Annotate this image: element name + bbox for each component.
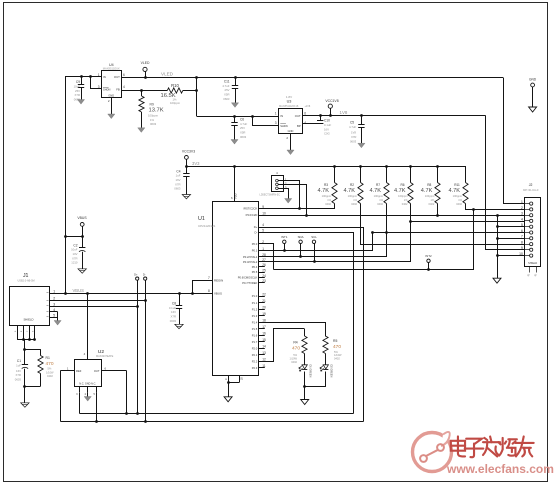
svg-text:0603: 0603 bbox=[240, 135, 247, 139]
resistor R3 bbox=[334, 166, 336, 182]
svg-text:R5: R5 bbox=[333, 339, 337, 343]
svg-text:VCC1V8: VCC1V8 bbox=[325, 99, 338, 103]
regulator U4 bbox=[102, 71, 122, 98]
wire U4 GND stub bbox=[111, 98, 113, 114]
svg-text:P0.2/XTAL1: P0.2/XTAL1 bbox=[243, 255, 258, 259]
svg-text:100ppm: 100ppm bbox=[148, 114, 159, 118]
capacitor C6 bbox=[234, 116, 236, 122]
wire shield to C1 bbox=[24, 340, 26, 349]
wire U2 pin3 to railA bbox=[79, 393, 81, 414]
svg-text:1/10W: 1/10W bbox=[290, 356, 298, 360]
svg-text:7: 7 bbox=[208, 276, 210, 280]
svg-text:19: 19 bbox=[262, 312, 266, 316]
svg-text:www.elecfans.com: www.elecfans.com bbox=[446, 462, 554, 476]
wire J2 ground bus bbox=[497, 215, 499, 278]
svg-text:4: 4 bbox=[521, 217, 523, 221]
svg-text:J2: J2 bbox=[529, 183, 533, 187]
svg-text:1uF: 1uF bbox=[16, 364, 21, 368]
wire C1R1 top bbox=[25, 349, 40, 351]
wire D+ line bbox=[259, 228, 364, 422]
wire U2 pin6 drop bbox=[126, 371, 128, 414]
wire U4-out to U3-in bbox=[197, 116, 279, 118]
wire U1 VDD riser bbox=[234, 166, 236, 202]
resistor R11 bbox=[465, 166, 467, 182]
svg-text:1/10W: 1/10W bbox=[46, 370, 54, 374]
svg-text:4.7K: 4.7K bbox=[394, 188, 406, 194]
svg-text:3: 3 bbox=[98, 85, 100, 89]
svg-text:13: 13 bbox=[262, 351, 266, 355]
svg-text:0402: 0402 bbox=[291, 360, 297, 364]
U1 right pin stubs bbox=[259, 208, 265, 210]
svg-text:4.7K: 4.7K bbox=[449, 188, 461, 194]
svg-text:R4: R4 bbox=[293, 340, 297, 344]
svg-text:0603: 0603 bbox=[15, 377, 22, 381]
svg-text:/RST/C2CK: /RST/C2CK bbox=[243, 207, 257, 211]
wire J1 pin2 line bbox=[50, 300, 146, 302]
svg-text:OUT: OUT bbox=[295, 114, 301, 118]
capacitor C9 bbox=[81, 77, 83, 84]
svg-text:OUT: OUT bbox=[94, 369, 100, 373]
svg-text:P1.0: P1.0 bbox=[252, 294, 258, 298]
svg-text:0402: 0402 bbox=[456, 202, 462, 206]
svg-text:P0.4: P0.4 bbox=[252, 265, 258, 269]
wire P0.0 to INT2 line bbox=[259, 244, 274, 270]
ground C2 bbox=[78, 269, 86, 273]
resonator pins bbox=[276, 179, 279, 182]
svg-text:4: 4 bbox=[123, 85, 125, 89]
svg-text:GND: GND bbox=[529, 78, 537, 82]
ground C6 bbox=[231, 140, 238, 145]
svg-text:3: 3 bbox=[53, 302, 55, 306]
svg-text:13.7K: 13.7K bbox=[149, 107, 164, 113]
svg-text:P0.7/TVREF: P0.7/TVREF bbox=[242, 281, 257, 285]
svg-text:26: 26 bbox=[262, 263, 266, 267]
svg-text:VLED: VLED bbox=[161, 72, 174, 77]
wire U4 IN feed bbox=[65, 76, 101, 78]
resistor R9 bbox=[141, 90, 143, 96]
ground C8 bbox=[175, 324, 183, 328]
svg-text:KRT-I01-04-LD: KRT-I01-04-LD bbox=[523, 190, 539, 192]
svg-text:C10: C10 bbox=[324, 119, 330, 123]
ic U1 box bbox=[213, 202, 259, 376]
svg-text:J1: J1 bbox=[23, 273, 29, 279]
wire D- vertical bbox=[145, 280, 147, 422]
svg-text:R1: R1 bbox=[46, 356, 50, 360]
svg-text:22: 22 bbox=[262, 292, 266, 296]
U2 left pin bbox=[60, 370, 74, 372]
svg-text:0603: 0603 bbox=[223, 97, 230, 101]
U1 bottom GND pins bbox=[228, 375, 230, 382]
svg-text:P2.1: P2.1 bbox=[252, 353, 258, 357]
wire REGIN link bbox=[193, 281, 213, 294]
svg-text:4.7K: 4.7K bbox=[318, 188, 330, 194]
svg-text:P0.1: P0.1 bbox=[252, 249, 258, 253]
svg-text:470: 470 bbox=[292, 345, 300, 351]
svg-text:3V3: 3V3 bbox=[192, 161, 200, 166]
capacitor C10 bbox=[320, 116, 322, 120]
wire rail B (D- bottom) bbox=[61, 421, 364, 423]
svg-text:1/10W: 1/10W bbox=[334, 353, 342, 357]
svg-text:REF: REF bbox=[76, 369, 82, 373]
capacitor C4 bbox=[183, 173, 189, 175]
svg-text:SHIELD: SHIELD bbox=[528, 262, 537, 265]
svg-text:P2.2: P2.2 bbox=[252, 360, 258, 364]
wire C1R1 bottom bbox=[25, 386, 40, 388]
svg-text:4: 4 bbox=[262, 223, 264, 227]
ic U2 box bbox=[75, 360, 102, 387]
svg-text:0402: 0402 bbox=[351, 202, 357, 206]
svg-text:5: 5 bbox=[521, 223, 523, 227]
svg-text:25V: 25V bbox=[75, 89, 80, 93]
svg-text:P0.6/CMOSCLK: P0.6/CMOSCLK bbox=[238, 276, 258, 280]
svg-text:0402: 0402 bbox=[325, 202, 331, 206]
ground C11 bbox=[231, 103, 238, 108]
wire U2 VCC riser bbox=[87, 293, 89, 359]
svg-text:U3: U3 bbox=[287, 100, 292, 104]
svg-text:10: 10 bbox=[262, 211, 266, 215]
svg-text:1: 1 bbox=[275, 112, 277, 116]
svg-text:D2 GREEN: D2 GREEN bbox=[329, 365, 332, 378]
wire D- line bbox=[259, 233, 354, 414]
wire R2 to J2 pin8 bbox=[361, 204, 525, 245]
svg-text:0402: 0402 bbox=[377, 202, 383, 206]
wire resonator pin2 to C2D line bbox=[284, 185, 307, 216]
wire J2 pin6 line bbox=[373, 232, 525, 234]
svg-text:BP: BP bbox=[297, 124, 301, 128]
svg-text:N.C. GND N.C.: N.C. GND N.C. bbox=[79, 382, 96, 385]
svg-text:CP2112F121: CP2112F121 bbox=[198, 224, 216, 228]
J2 pins bbox=[530, 202, 533, 205]
ground J2 bus bbox=[493, 278, 501, 283]
svg-text:1V8: 1V8 bbox=[351, 131, 356, 135]
wire resonator pin1 to RST line bbox=[284, 181, 300, 209]
svg-text:3: 3 bbox=[275, 121, 277, 125]
svg-text:0402: 0402 bbox=[334, 357, 340, 361]
ground C4 bbox=[182, 195, 190, 199]
wire R8 tail bbox=[437, 204, 439, 216]
svg-text:D+: D+ bbox=[134, 272, 138, 276]
U2 bottom pins bbox=[79, 386, 81, 392]
svg-text:100ppm: 100ppm bbox=[170, 101, 181, 105]
svg-text:R9: R9 bbox=[150, 102, 154, 106]
resonator Y4 box bbox=[272, 176, 284, 192]
resistor R1 bbox=[40, 349, 42, 355]
svg-text:VBUS: VBUS bbox=[214, 292, 222, 296]
wire J2 pin5 stub bbox=[505, 226, 525, 228]
svg-text:470: 470 bbox=[46, 361, 54, 367]
svg-text:P1.4: P1.4 bbox=[252, 321, 258, 325]
svg-text:INT2: INT2 bbox=[425, 254, 432, 258]
svg-text:U4: U4 bbox=[109, 63, 114, 67]
svg-text:USB2.0-AB-5M: USB2.0-AB-5M bbox=[18, 280, 35, 283]
svg-text:11: 11 bbox=[262, 364, 266, 368]
regulator U3 bbox=[279, 109, 303, 134]
svg-text:X7R: X7R bbox=[351, 135, 356, 139]
ground C1R1 bbox=[21, 403, 29, 407]
svg-text:IN: IN bbox=[280, 114, 283, 118]
svg-text:SHDN: SHDN bbox=[280, 124, 287, 128]
svg-text:1: 1 bbox=[53, 290, 55, 294]
svg-text:15: 15 bbox=[262, 338, 266, 342]
svg-text:8: 8 bbox=[208, 289, 210, 293]
svg-text:21: 21 bbox=[262, 299, 266, 303]
ground U4 bbox=[108, 114, 115, 119]
svg-text:0603: 0603 bbox=[174, 187, 181, 191]
led D2 bbox=[323, 365, 328, 369]
resistor R7 bbox=[386, 166, 388, 182]
wire U2 pin5 drop bbox=[96, 392, 98, 422]
svg-text:MAX8511EUK: MAX8511EUK bbox=[103, 67, 120, 71]
svg-text:470: 470 bbox=[333, 344, 341, 350]
svg-text:1210: 1210 bbox=[71, 261, 78, 265]
wire D+ vertical bbox=[137, 280, 139, 414]
svg-text:9: 9 bbox=[521, 246, 523, 250]
wire C2D line (U1 pin10 to J2 pin3) bbox=[259, 215, 525, 217]
wire U2 pin1 to railB bbox=[60, 371, 62, 422]
svg-text:C5: C5 bbox=[350, 121, 354, 125]
wire VLED rail bbox=[122, 77, 503, 79]
svg-text:4.7K: 4.7K bbox=[370, 188, 382, 194]
svg-text:VLED: VLED bbox=[141, 61, 150, 65]
wire R11 to J2 pin2 bbox=[466, 204, 525, 210]
svg-text:24: 24 bbox=[262, 274, 266, 278]
svg-text:R2: R2 bbox=[350, 183, 354, 187]
svg-text:1V8: 1V8 bbox=[340, 110, 348, 115]
svg-text:OUT: OUT bbox=[114, 75, 120, 79]
svg-text:R7: R7 bbox=[376, 183, 380, 187]
svg-text:0603: 0603 bbox=[170, 319, 177, 323]
ground LEDs bbox=[301, 400, 309, 405]
svg-text:X7R: X7R bbox=[75, 93, 80, 97]
svg-text:P1.7: P1.7 bbox=[252, 340, 258, 344]
svg-text:6: 6 bbox=[521, 229, 523, 233]
svg-text:2: 2 bbox=[521, 206, 523, 210]
wire 1V8 rail bbox=[303, 115, 486, 117]
svg-text:0402: 0402 bbox=[47, 374, 53, 378]
svg-text:16: 16 bbox=[262, 332, 266, 336]
svg-text:D1 GREEN: D1 GREEN bbox=[308, 365, 311, 378]
svg-text:MAX8511EXK18: MAX8511EXK18 bbox=[279, 104, 299, 108]
svg-text:6: 6 bbox=[123, 73, 125, 77]
svg-text:0603: 0603 bbox=[74, 98, 81, 102]
svg-text:GND: GND bbox=[108, 93, 114, 97]
svg-text:P1.1: P1.1 bbox=[252, 301, 258, 305]
svg-text:P2.3: P2.3 bbox=[252, 366, 258, 370]
svg-text:3: 3 bbox=[521, 212, 523, 216]
capacitor C5 bbox=[361, 116, 363, 125]
wire RST line (U1 pin9 to R3) bbox=[259, 204, 335, 209]
wire rail A (D+ bottom) bbox=[80, 413, 354, 415]
ground C9 bbox=[77, 100, 84, 105]
resistor R4 bbox=[304, 329, 306, 336]
wire J1 shield stubs bbox=[17, 325, 19, 340]
svg-text:LD5ECT3/MRN-5C: LD5ECT3/MRN-5C bbox=[260, 194, 281, 197]
resistor R2 bbox=[360, 166, 362, 182]
wire LED bottoms bbox=[304, 372, 306, 387]
svg-text:25: 25 bbox=[262, 268, 266, 272]
svg-text:4.7K: 4.7K bbox=[344, 188, 356, 194]
svg-text:4.7K: 4.7K bbox=[421, 188, 433, 194]
svg-text:20: 20 bbox=[262, 306, 266, 310]
wire VBUS tie bbox=[65, 236, 82, 238]
wire J1 pin1 VBUS line bbox=[50, 293, 213, 295]
svg-text:17: 17 bbox=[262, 325, 266, 329]
svg-text:5: 5 bbox=[53, 314, 55, 318]
svg-text:10uF: 10uF bbox=[74, 84, 81, 88]
svg-text:100ppm: 100ppm bbox=[398, 194, 407, 198]
svg-text:4.7uF: 4.7uF bbox=[349, 125, 356, 129]
svg-text:P2.0: P2.0 bbox=[252, 347, 258, 351]
watermark logo bbox=[413, 432, 452, 472]
svg-text:P0.5: P0.5 bbox=[252, 270, 258, 274]
connector J1 box bbox=[10, 287, 50, 326]
svg-text:IN: IN bbox=[103, 75, 106, 79]
wire U4 SHDN branch bbox=[91, 77, 102, 89]
ground J1 bbox=[54, 321, 61, 326]
capacitor C11 bbox=[235, 77, 237, 85]
svg-text:MAX3207EATE: MAX3207EATE bbox=[96, 355, 114, 358]
svg-text:14: 14 bbox=[262, 345, 266, 349]
resistor R5 bbox=[323, 336, 328, 354]
svg-text:100ppm: 100ppm bbox=[453, 194, 462, 198]
svg-text:R3: R3 bbox=[324, 183, 328, 187]
wire P0.1 INT1 line bbox=[259, 233, 373, 251]
svg-text:VDD: VDD bbox=[233, 193, 237, 199]
wire VBUS left vertical (x=65) bbox=[65, 77, 67, 293]
watermark chinese text bbox=[451, 437, 465, 457]
svg-text:0603: 0603 bbox=[150, 122, 157, 126]
svg-text:0402: 0402 bbox=[402, 202, 408, 206]
svg-text:100ppm: 100ppm bbox=[348, 194, 357, 198]
svg-text:7: 7 bbox=[521, 235, 523, 239]
ground top-right bbox=[529, 107, 537, 112]
svg-text:8: 8 bbox=[521, 240, 523, 244]
wire VLED drop to J2 pin1 bbox=[504, 78, 525, 204]
svg-text:P0.0: P0.0 bbox=[252, 242, 258, 246]
svg-text:R10: R10 bbox=[171, 83, 179, 88]
wire J1 pin4/5 gnd bbox=[50, 311, 58, 313]
ground U1 bbox=[224, 397, 232, 402]
svg-text:1: 1 bbox=[521, 200, 523, 204]
svg-text:D-: D- bbox=[143, 272, 146, 276]
wire P2.2 to R4 bbox=[259, 329, 305, 362]
svg-text:SCL: SCL bbox=[311, 235, 317, 239]
svg-text:INT1: INT1 bbox=[281, 235, 288, 239]
wire P1.4 to R5 bbox=[259, 323, 326, 337]
ground U2 bbox=[87, 392, 89, 396]
U2 right pin bbox=[102, 370, 127, 372]
svg-text:C0G: C0G bbox=[324, 132, 330, 136]
svg-text:R8: R8 bbox=[427, 183, 431, 187]
svg-text:P1.2: P1.2 bbox=[252, 308, 258, 312]
wire INT2 line bbox=[274, 210, 474, 270]
svg-text:0603: 0603 bbox=[350, 139, 357, 143]
led D1 bbox=[302, 365, 307, 369]
capacitor C2 bbox=[79, 247, 85, 249]
wire U3 GND stub bbox=[290, 133, 292, 150]
capacitor C8 bbox=[179, 293, 181, 306]
svg-text:R11: R11 bbox=[454, 183, 460, 187]
svg-text:P0.3/XTAL2: P0.3/XTAL2 bbox=[243, 260, 258, 264]
wire FB line bbox=[122, 90, 168, 92]
svg-text:23: 23 bbox=[262, 279, 266, 283]
svg-text:GND: GND bbox=[288, 129, 294, 133]
connector J2 box bbox=[525, 198, 541, 267]
wire 1V8 drop to J2 pin9 bbox=[486, 116, 525, 250]
svg-text:100ppm: 100ppm bbox=[425, 194, 434, 198]
wire J1 pin3 line bbox=[50, 306, 138, 308]
ground resonator bbox=[285, 199, 292, 204]
svg-text:1: 1 bbox=[98, 73, 100, 77]
svg-text:+1V8: +1V8 bbox=[305, 105, 311, 108]
svg-text:P1.5: P1.5 bbox=[252, 327, 258, 331]
wire U3 SHDN branch bbox=[253, 117, 279, 126]
svg-text:FB: FB bbox=[116, 87, 120, 91]
svg-text:SHIELD: SHIELD bbox=[23, 317, 33, 321]
ground R9 bbox=[138, 128, 145, 133]
svg-text:C9: C9 bbox=[76, 80, 80, 84]
resistor R6 bbox=[410, 166, 412, 182]
resistor R10 bbox=[167, 88, 183, 93]
resistor R8 bbox=[437, 166, 439, 182]
svg-text:VBUS: VBUS bbox=[73, 288, 85, 293]
wire SDA line (U1 pin28 to R7) bbox=[259, 204, 387, 257]
wire J2 pin7 stub bbox=[505, 238, 525, 240]
wire SCL line (U1 pin27 to R6) bbox=[259, 204, 411, 262]
ground U3 bbox=[287, 150, 294, 155]
svg-text:SHDN: SHDN bbox=[103, 87, 110, 91]
wire 3V3 rail bbox=[187, 167, 466, 183]
svg-text:P3.0/C2D: P3.0/C2D bbox=[246, 213, 258, 217]
svg-text:100ppm: 100ppm bbox=[322, 194, 331, 198]
svg-text:P1.3: P1.3 bbox=[252, 314, 258, 318]
wire R10 to VLED rail bbox=[196, 77, 198, 116]
ground C5 bbox=[358, 143, 365, 148]
svg-text:VCC3V3: VCC3V3 bbox=[182, 150, 195, 154]
capacitor C1 bbox=[24, 349, 26, 364]
svg-text:0402: 0402 bbox=[429, 202, 435, 206]
svg-text:D+: D+ bbox=[254, 225, 258, 229]
svg-text:R6: R6 bbox=[400, 183, 404, 187]
svg-text:5: 5 bbox=[262, 229, 264, 233]
svg-text:100ppm: 100ppm bbox=[374, 194, 383, 198]
wire J2 pin4 line bbox=[411, 221, 525, 223]
wire resonator pin3 to gnd bbox=[284, 189, 289, 199]
svg-text:VBUS: VBUS bbox=[77, 216, 87, 220]
svg-text:SDA: SDA bbox=[298, 235, 304, 239]
svg-text:1.8V: 1.8V bbox=[286, 95, 292, 99]
svg-text:10: 10 bbox=[519, 252, 523, 256]
svg-text:P1.6: P1.6 bbox=[252, 334, 258, 338]
svg-text:U1: U1 bbox=[198, 216, 205, 222]
svg-text:D-: D- bbox=[254, 230, 257, 234]
svg-text:REGIN: REGIN bbox=[214, 279, 223, 283]
